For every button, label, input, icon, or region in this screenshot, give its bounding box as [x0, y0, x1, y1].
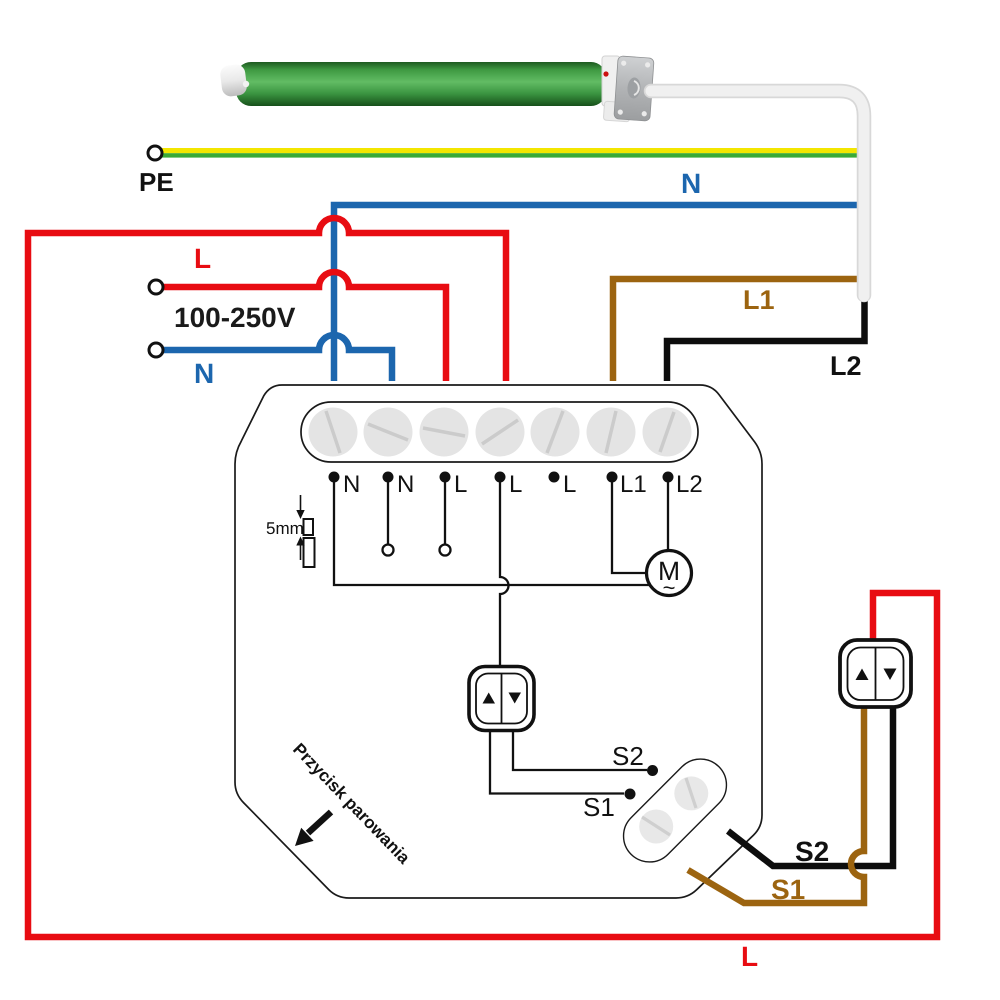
wire L1 (brown)	[613, 279, 860, 381]
svg-text:N: N	[194, 358, 214, 389]
node L4	[495, 472, 506, 483]
pad screw S1	[639, 810, 673, 844]
svg-text:L: L	[509, 471, 522, 498]
svg-text:5mm: 5mm	[266, 519, 304, 538]
node N2	[383, 472, 394, 483]
screw 5	[531, 408, 580, 457]
wire internal L3 stub	[444, 477, 446, 544]
device outline	[235, 385, 762, 898]
node N1	[329, 472, 340, 483]
svg-text:S1: S1	[583, 792, 615, 822]
svg-text:N: N	[343, 471, 360, 498]
button pad	[613, 748, 737, 872]
wire L supply (red)	[163, 272, 446, 381]
wire PE yellow	[161, 148, 864, 153]
svg-text:L: L	[194, 243, 211, 274]
node L3	[440, 472, 451, 483]
motor tube pin	[243, 81, 249, 87]
motor cable	[651, 91, 864, 296]
pairing arrow	[295, 812, 331, 846]
terminal PE	[148, 146, 162, 160]
svg-text:PE: PE	[139, 167, 174, 197]
wire S2 external (black)	[728, 708, 893, 866]
svg-text:100-250V: 100-250V	[174, 302, 296, 333]
wire S1 external (brown) with hop	[688, 708, 864, 903]
svg-text:L1: L1	[620, 471, 647, 498]
screw 3	[420, 408, 469, 457]
node L5	[549, 472, 560, 483]
screw 2	[364, 408, 413, 457]
motor tube M-TUBE	[236, 62, 606, 106]
motor left end cap	[219, 64, 248, 98]
node S1	[625, 789, 636, 800]
wire internal L to switch with hop	[500, 477, 509, 666]
gauge stripped wire rect	[304, 519, 314, 535]
wire L main red loop	[28, 218, 937, 937]
svg-text:L2: L2	[830, 351, 862, 381]
svg-text:L: L	[741, 941, 758, 972]
wire internal L1 to motor	[612, 477, 647, 573]
node S2	[647, 765, 658, 776]
wire L2 (black)	[667, 299, 865, 381]
node L1t	[607, 472, 618, 483]
wire internal L2 to motor	[667, 477, 669, 551]
motor head collar	[602, 56, 620, 106]
svg-text:S1: S1	[771, 874, 805, 905]
switch SW1 internal (up/down)	[469, 667, 534, 731]
motor LED	[603, 71, 608, 76]
wire N top (blue)	[334, 205, 860, 381]
wire N supply (blue)	[163, 335, 392, 381]
gauge insulated wire rect	[304, 538, 315, 567]
motor cable outline	[651, 91, 864, 295]
switch SW2 external (up/down)	[840, 640, 911, 707]
svg-text:~: ~	[663, 575, 676, 600]
terminal L supply	[149, 280, 163, 294]
gauge top arrow	[296, 495, 304, 519]
pad screw S2	[674, 776, 708, 810]
svg-text:N: N	[681, 168, 701, 199]
node open N2	[383, 545, 394, 556]
svg-text:L: L	[454, 471, 467, 498]
wire internal N to motor	[334, 477, 650, 585]
screw 7	[643, 408, 692, 457]
gauge bottom arrow	[296, 537, 304, 561]
terminal N supply	[149, 343, 163, 357]
screw 4	[476, 408, 525, 457]
screw 6	[587, 408, 636, 457]
wire internal N2 stub	[387, 477, 389, 544]
motor head lower bracket	[603, 101, 630, 122]
wire PE green stripe	[161, 153, 864, 157]
svg-text:L2: L2	[676, 471, 703, 498]
svg-text:S2: S2	[612, 741, 644, 771]
terminal block	[301, 402, 698, 462]
svg-text:N: N	[397, 471, 414, 498]
motor head box	[614, 56, 654, 121]
motor head emblem	[627, 77, 641, 99]
node open L3	[440, 545, 451, 556]
screw 1	[309, 408, 358, 457]
motor symbol M1	[647, 551, 692, 601]
wire switch to S2	[513, 730, 647, 770]
svg-text:L1: L1	[743, 285, 775, 315]
node L2t	[663, 472, 674, 483]
svg-text:S2: S2	[795, 836, 829, 867]
motor head screw holes	[618, 60, 651, 116]
wire switch to S1	[490, 730, 624, 794]
svg-text:L: L	[563, 471, 576, 498]
